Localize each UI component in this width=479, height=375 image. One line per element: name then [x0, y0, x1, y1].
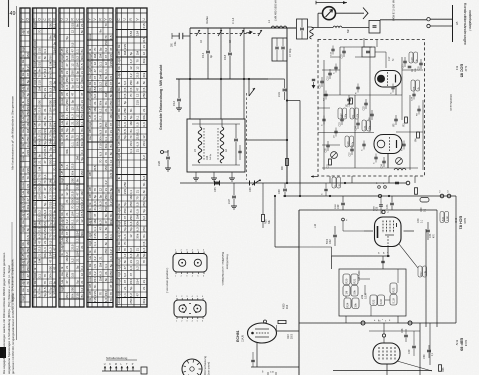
end terminal of upper bus: [406, 181, 410, 185]
resistor R33: [439, 365, 442, 372]
svg-text:3,2: 3,2: [38, 180, 42, 185]
svg-text:215: 215: [99, 143, 103, 148]
svg-text:6,3: 6,3: [65, 85, 69, 90]
svg-text:8n: 8n: [129, 129, 133, 133]
wire gang drop 2: [220, 28, 222, 79]
capacitor C34: [382, 160, 386, 162]
svg-text:154: 154: [65, 237, 69, 242]
svg-text:UB: UB: [60, 163, 64, 167]
svg-text:C31: C31: [277, 92, 281, 97]
svg-text:6,3: 6,3: [123, 234, 127, 239]
svg-text:Ua: Ua: [33, 202, 37, 206]
svg-text:Rk: Rk: [88, 297, 92, 301]
svg-text:21: 21: [99, 87, 103, 91]
svg-text:154: 154: [142, 141, 146, 146]
svg-text:250: 250: [65, 99, 69, 104]
wire feed y256: [332, 255, 391, 257]
switch arrow MW: [246, 31, 252, 33]
svg-text:Ug2: Ug2: [21, 29, 25, 35]
ink blot bottom-left: [0, 347, 6, 358]
svg-text:6,3: 6,3: [142, 122, 146, 127]
svg-text:Uosz: Uosz: [117, 160, 121, 168]
svg-text:47: 47: [109, 284, 113, 288]
wire oscillator feed to bus: [287, 100, 300, 102]
svg-text:30k: 30k: [80, 77, 84, 82]
svg-text:0,1: 0,1: [109, 166, 113, 171]
boxed labels R17: [418, 266, 422, 277]
svg-text:70: 70: [104, 23, 108, 27]
svg-text:UB: UB: [21, 253, 25, 257]
svg-text:12: 12: [53, 202, 57, 206]
svg-text:UB: UB: [60, 70, 64, 74]
capacitor C18: [228, 52, 232, 54]
svg-text:30k: 30k: [43, 233, 47, 238]
svg-text:0,5: 0,5: [123, 129, 127, 134]
capacitor R5: [394, 118, 398, 120]
capacitor C23: [340, 118, 344, 120]
capacitor C27: [350, 148, 354, 150]
capacitor C49: [412, 345, 416, 347]
svg-text:R14: R14: [287, 304, 289, 309]
svg-text:250: 250: [123, 208, 127, 213]
svg-text:8n: 8n: [142, 190, 146, 194]
svg-text:250: 250: [129, 80, 133, 85]
svg-text:154: 154: [104, 165, 108, 170]
svg-text:30k: 30k: [142, 298, 146, 303]
svg-text:Röhrenfassung: Röhrenfassung: [203, 356, 207, 375]
svg-text:5p: 5p: [123, 135, 127, 139]
svg-text:1M: 1M: [93, 107, 97, 112]
svg-text:Ua: Ua: [117, 247, 121, 251]
svg-text:250: 250: [53, 129, 57, 134]
svg-text:70: 70: [43, 281, 47, 285]
svg-text:Ik: Ik: [21, 54, 25, 57]
svg-text:0,1: 0,1: [53, 23, 57, 28]
svg-text:Ua: Ua: [60, 231, 64, 235]
svg-text:5p: 5p: [129, 286, 133, 290]
svg-text:Rk: Rk: [60, 141, 64, 145]
svg-text:Ua: Ua: [33, 147, 37, 151]
svg-text:250: 250: [123, 182, 127, 187]
svg-text:C33: C33: [327, 164, 329, 169]
junction dots on bus: [286, 182, 288, 184]
svg-text:70: 70: [76, 219, 80, 223]
svg-text:21: 21: [43, 240, 47, 244]
svg-text:8n: 8n: [109, 213, 113, 217]
svg-text:C40: C40: [417, 218, 420, 223]
capacitor C15: [342, 50, 346, 52]
svg-text:30k: 30k: [136, 233, 140, 238]
svg-text:Ua: Ua: [21, 105, 25, 109]
svg-text:Ug1: Ug1: [33, 22, 37, 28]
svg-text:6AJ8: 6AJ8: [463, 218, 466, 224]
svg-text:UB: UB: [88, 194, 92, 198]
svg-text:250: 250: [104, 206, 108, 211]
svg-text:21: 21: [104, 188, 108, 192]
svg-text:Uosz: Uosz: [88, 99, 92, 107]
svg-text:Ug1: Ug1: [88, 121, 92, 127]
svg-text:0,5: 0,5: [136, 122, 140, 127]
svg-text:30k: 30k: [80, 141, 84, 146]
svg-text:250: 250: [65, 77, 69, 82]
UKW internal wire h3: [322, 167, 418, 169]
svg-text:215: 215: [123, 221, 127, 226]
svg-text:3,2: 3,2: [53, 195, 57, 200]
svg-text:1M: 1M: [99, 263, 103, 268]
svg-text:Ua: Ua: [33, 140, 37, 144]
svg-text:12: 12: [99, 188, 103, 192]
svg-text:0,5: 0,5: [26, 213, 30, 218]
svg-text:C50: C50: [423, 354, 426, 359]
svg-text:8n: 8n: [109, 144, 113, 148]
filter box F2 lower: [272, 38, 287, 61]
wire drop x263 with resistor R10: [262, 183, 264, 214]
svg-text:0,1: 0,1: [65, 164, 69, 169]
svg-text:154: 154: [65, 106, 69, 111]
svg-text:21: 21: [136, 190, 140, 194]
svg-text:1M: 1M: [26, 122, 30, 127]
boxed label R24: [344, 298, 351, 309]
svg-text:0,1: 0,1: [71, 219, 75, 224]
capacitor C21: [403, 60, 407, 62]
svg-text:UB: UB: [88, 114, 92, 118]
svg-text:30k: 30k: [48, 73, 52, 78]
svg-text:R21: R21: [353, 278, 357, 283]
svg-text:215: 215: [142, 23, 146, 28]
svg-text:Ua: Ua: [60, 238, 64, 242]
svg-text:250: 250: [142, 226, 146, 231]
UKW tuner dashed enclosure: [318, 40, 425, 177]
svg-text:Ug2: Ug2: [117, 72, 121, 78]
svg-text:8n: 8n: [26, 228, 30, 232]
boxed label 1M: [343, 286, 350, 297]
UKW box corner arrow mark: [311, 176, 318, 178]
resistor R13 right of tube: [278, 320, 286, 323]
svg-text:21: 21: [71, 121, 75, 125]
svg-text:0,5: 0,5: [123, 87, 127, 92]
svg-text:215: 215: [53, 100, 57, 105]
svg-text:0,5: 0,5: [38, 135, 42, 140]
svg-text:47: 47: [104, 55, 108, 59]
svg-text:Uosz: Uosz: [21, 155, 25, 163]
series box on antenna line: [369, 20, 380, 33]
svg-text:1M: 1M: [93, 54, 97, 59]
tube V4 EBF89 with grid: [373, 343, 400, 364]
svg-text:6,3: 6,3: [93, 115, 97, 120]
svg-text:215: 215: [142, 37, 146, 42]
svg-text:0,5: 0,5: [109, 35, 113, 40]
svg-text:1M: 1M: [136, 215, 140, 220]
terminal T2: [408, 321, 412, 325]
svg-text:Uosz: Uosz: [33, 114, 37, 122]
svg-text:250: 250: [71, 70, 75, 75]
svg-text:Rk: Rk: [117, 135, 121, 139]
svg-text:Ug2: Ug2: [33, 159, 37, 165]
capacitor C19: [328, 72, 332, 74]
svg-text:8n: 8n: [76, 23, 80, 27]
capacitor C39b above tube: [379, 204, 383, 206]
capacitor C25: [326, 144, 330, 146]
gang capacitor arrow: [218, 30, 222, 36]
svg-text:ECC 85: ECC 85: [460, 64, 464, 77]
svg-text:5p: 5p: [136, 253, 140, 257]
svg-text:12: 12: [65, 192, 69, 196]
svg-text:3,2: 3,2: [136, 266, 140, 271]
svg-text:30k: 30k: [48, 273, 52, 278]
terminal labels b c: [378, 186, 381, 189]
svg-text:C14: C14: [201, 52, 205, 58]
svg-text:6,3: 6,3: [142, 176, 146, 181]
svg-text:Uosz: Uosz: [21, 272, 25, 280]
diagonal wire tube to labels: [399, 244, 418, 268]
svg-text:UB: UB: [117, 115, 121, 119]
svg-text:C40: C40: [420, 207, 423, 212]
svg-text:UKW 87,5-100 MHz: UKW 87,5-100 MHz: [392, 0, 396, 21]
svg-text:47: 47: [93, 213, 97, 217]
terminal T1: [361, 321, 365, 325]
svg-text:UB: UB: [60, 134, 64, 138]
svg-text:30k: 30k: [71, 170, 75, 175]
svg-text:250: 250: [80, 113, 84, 118]
svg-text:C44: C44: [429, 233, 432, 238]
svg-text:250: 250: [26, 111, 30, 116]
svg-text:C24: C24: [355, 126, 357, 131]
svg-text:47: 47: [26, 198, 30, 202]
tuning gang dashed linkage: [190, 33, 262, 35]
svg-text:4000: 4000: [283, 303, 286, 309]
svg-text:Ik: Ik: [60, 193, 64, 196]
svg-text:70: 70: [71, 205, 75, 209]
svg-text:30k: 30k: [136, 221, 140, 226]
capacitor C39 drop: [341, 202, 345, 204]
svg-text:0,1: 0,1: [80, 149, 84, 154]
svg-text:215: 215: [109, 54, 113, 59]
svg-text:5p: 5p: [26, 260, 30, 264]
svg-text:8n: 8n: [142, 234, 146, 238]
svg-text:Ug2: Ug2: [21, 295, 25, 301]
svg-text:Ik: Ik: [33, 260, 37, 263]
svg-text:6L12: 6L12: [464, 66, 467, 72]
tube V3 ECH81: [248, 323, 277, 343]
svg-text:1M: 1M: [99, 54, 103, 59]
svg-text:ECH 81: ECH 81: [459, 216, 463, 229]
svg-text:6,3: 6,3: [99, 271, 103, 276]
tube V2 anode dashes lower: [387, 236, 389, 246]
svg-text:L6: L6: [224, 148, 228, 152]
svg-text:6,3: 6,3: [93, 201, 97, 206]
svg-text:R23: R23: [392, 287, 396, 292]
svg-text:1M: 1M: [99, 75, 103, 80]
svg-text:Ik: Ik: [33, 288, 37, 291]
svg-text:5p: 5p: [26, 93, 30, 97]
svg-text:C6a: C6a: [174, 41, 177, 46]
svg-text:8n: 8n: [76, 178, 80, 182]
wire lower bus y331: [369, 330, 420, 332]
svg-text:6,3: 6,3: [142, 248, 146, 253]
svg-text:Rk: Rk: [33, 280, 37, 284]
svg-text:250: 250: [43, 93, 47, 98]
svg-text:Rk: Rk: [88, 263, 92, 267]
svg-text:47: 47: [43, 195, 47, 199]
svg-text:0,1: 0,1: [104, 137, 108, 142]
svg-text:3,2: 3,2: [65, 219, 69, 224]
svg-text:47: 47: [99, 227, 103, 231]
svg-text:250: 250: [76, 120, 80, 125]
svg-text:Uosz: Uosz: [88, 211, 92, 219]
wire oscillator vertical bus: [286, 28, 288, 183]
svg-text:21: 21: [76, 258, 80, 262]
svg-text:Ug1: Ug1: [88, 240, 92, 246]
svg-text:6,3: 6,3: [71, 114, 75, 119]
svg-text:0,1: 0,1: [53, 160, 57, 165]
svg-text:154: 154: [129, 141, 133, 146]
tube V1b ECC85 triode: [374, 135, 402, 154]
svg-text:250: 250: [104, 194, 108, 199]
svg-text:B III: B III: [454, 218, 458, 223]
svg-text:8n: 8n: [80, 49, 84, 53]
svg-text:Ug1: Ug1: [60, 204, 64, 210]
svg-text:47: 47: [93, 69, 97, 73]
table band 1 switch positions: [20, 8, 30, 307]
svg-text:Rk: Rk: [21, 72, 25, 76]
svg-text:Ug2: Ug2: [60, 83, 64, 89]
svg-text:215: 215: [76, 198, 80, 203]
svg-text:8n: 8n: [129, 209, 133, 213]
svg-text:47: 47: [109, 82, 113, 86]
svg-text:0,1: 0,1: [99, 207, 103, 212]
svg-text:0,5: 0,5: [136, 209, 140, 214]
svg-text:0,1: 0,1: [43, 49, 47, 54]
svg-text:250: 250: [104, 248, 108, 253]
svg-text:21: 21: [80, 23, 84, 27]
svg-text:8n: 8n: [93, 249, 97, 253]
open chevron arrowhead: [363, 8, 368, 20]
capacitor C43 drop: [390, 202, 394, 204]
UKW boxed label pair 2: [350, 108, 354, 119]
svg-text:30k: 30k: [65, 149, 69, 154]
svg-text:Ug1: Ug1: [60, 76, 64, 82]
IF filter box F1: [297, 19, 308, 39]
boxed label R20: [343, 274, 350, 285]
svg-text:5p: 5p: [65, 128, 69, 132]
svg-text:R22: R22: [372, 299, 376, 304]
svg-text:0,1: 0,1: [93, 242, 97, 247]
boxed labels under box corner: [332, 177, 336, 188]
capacitor C24: [356, 122, 360, 124]
tube V2 ECH81 with grid: [375, 217, 402, 247]
UKW internal wire v: [363, 38, 365, 47]
svg-text:Ug1: Ug1: [33, 40, 37, 46]
svg-text:C39: C39: [377, 206, 379, 211]
UKW trimmer T1: [331, 152, 338, 159]
svg-text:0,1: 0,1: [104, 69, 108, 74]
svg-text:Ug1: Ug1: [21, 85, 25, 91]
svg-text:6,3: 6,3: [136, 227, 140, 232]
svg-text:1M: 1M: [38, 221, 42, 226]
wire audio box right vertical 1: [425, 229, 427, 327]
svg-text:21: 21: [80, 71, 84, 75]
svg-text:12: 12: [80, 219, 84, 223]
tube V1a ECC85 triode: [375, 71, 401, 88]
svg-text:1M: 1M: [136, 51, 140, 56]
svg-text:Uosz: Uosz: [60, 98, 64, 106]
svg-text:Ug2: Ug2: [88, 92, 92, 98]
svg-text:70: 70: [136, 196, 140, 200]
svg-text:70: 70: [71, 135, 75, 139]
terminal capacitors left of box: [166, 156, 170, 158]
svg-text:70: 70: [48, 94, 52, 98]
svg-text:21: 21: [53, 234, 57, 238]
svg-text:Ua: Ua: [21, 168, 25, 172]
svg-text:0,5: 0,5: [109, 173, 113, 178]
svg-text:Ug2: Ug2: [60, 244, 64, 250]
svg-text:LMK 485-1605 kHz: LMK 485-1605 kHz: [274, 0, 278, 21]
svg-text:C49: C49: [408, 349, 411, 354]
wire IF bus lower: [283, 195, 456, 197]
svg-text:2000: 2000: [292, 333, 294, 339]
svg-text:8n: 8n: [38, 287, 42, 291]
svg-text:C24: C24: [207, 155, 209, 160]
svg-text:0,5: 0,5: [123, 93, 127, 98]
svg-text:70: 70: [38, 74, 42, 78]
svg-text:5p: 5p: [123, 227, 127, 231]
UKW internal wire h2: [318, 132, 374, 134]
resistor 1,2k: [350, 98, 353, 104]
wire AM bus horizontal: [176, 78, 268, 80]
svg-text:Ug1: Ug1: [117, 233, 121, 239]
svg-text:Ug2: Ug2: [60, 286, 64, 292]
svg-text:Ug1: Ug1: [60, 224, 64, 230]
svg-text:Ug2: Ug2: [21, 280, 25, 286]
UKW extra parts: [331, 48, 334, 50]
svg-text:3,2: 3,2: [104, 180, 108, 185]
svg-text:47: 47: [109, 123, 113, 127]
svg-text:Uosz: Uosz: [117, 120, 121, 128]
coil L6: [220, 127, 224, 163]
svg-text:Uosz: Uosz: [117, 284, 121, 292]
svg-text:70: 70: [53, 167, 57, 171]
svg-text:5p: 5p: [129, 227, 133, 231]
svg-text:0,1: 0,1: [109, 137, 113, 142]
UKW internal wire v: [401, 57, 403, 95]
svg-text:30k: 30k: [43, 253, 47, 258]
svg-text:21: 21: [142, 280, 146, 284]
svg-text:5p: 5p: [65, 36, 69, 40]
svg-text:215: 215: [53, 146, 57, 151]
capacitor C44 right of tube: [426, 229, 430, 231]
svg-text:70: 70: [38, 56, 42, 60]
svg-text:0,1M: 0,1M: [393, 298, 396, 303]
svg-text:Ik: Ik: [21, 100, 25, 103]
svg-text:8n: 8n: [142, 182, 146, 186]
svg-text:Ug1: Ug1: [88, 60, 92, 66]
svg-text:8n: 8n: [80, 294, 84, 298]
boxed label 30k: [352, 298, 359, 309]
UKW boxed label pair 1: [338, 108, 342, 119]
svg-text:Ua: Ua: [33, 108, 37, 112]
svg-text:5p: 5p: [80, 157, 84, 161]
svg-text:70: 70: [93, 188, 97, 192]
svg-text:3,2: 3,2: [129, 73, 133, 78]
boxed label 0,1M: [390, 295, 397, 306]
svg-text:3,2: 3,2: [129, 248, 133, 253]
svg-text:8n: 8n: [38, 68, 42, 72]
capacitor C42 left of tube: [333, 234, 337, 236]
svg-text:3,2: 3,2: [65, 252, 69, 257]
svg-text:154: 154: [76, 106, 80, 111]
svg-text:Uosz: Uosz: [117, 99, 121, 107]
svg-text:Ug1: Ug1: [33, 92, 37, 98]
